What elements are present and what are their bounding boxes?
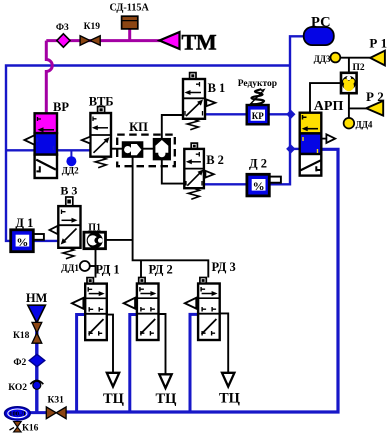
wire: ARP right output down right side and bottom bus [64, 149, 338, 412]
wire: RS reservoir drop vertical x=290 down to D2 link [269, 36, 303, 184]
svg-text:ДД1: ДД1 [61, 264, 79, 274]
wire: KP left element down + RD header [133, 157, 209, 277]
check valve KO2 [30, 380, 43, 389]
KR pressure regulator (Reduktor) [247, 89, 269, 125]
svg-text:КР: КР [252, 111, 265, 121]
filter F3 magenta diamond [57, 34, 70, 47]
svg-text:ВР: ВР [53, 100, 69, 114]
svg-text:ТЦ: ТЦ [103, 391, 125, 407]
KP right check element [154, 139, 171, 160]
wire: VR supply line from left border [6, 149, 90, 151]
P1 pressure switch [84, 232, 106, 249]
svg-text:%: % [253, 179, 265, 193]
wire: NM feed chain vertical [35, 318, 38, 412]
svg-text:П2: П2 [353, 63, 365, 73]
svg-text:РС: РС [311, 14, 331, 30]
wire: RD2 pilot drop [140, 260, 142, 277]
svg-text:НМ: НМ [26, 291, 48, 305]
svg-text:Редуктор: Редуктор [238, 79, 277, 89]
KP check valve unit dashed box [117, 135, 175, 167]
svg-text:ТЦ: ТЦ [219, 391, 241, 407]
wire: RD2 output to TC arrow [159, 314, 165, 374]
D2 pressure sensor percent box [247, 174, 281, 196]
wire: top blue bus + left border down to D1 [6, 66, 290, 241]
junction dot on vertical bus at KR line [286, 110, 295, 119]
svg-text:К31: К31 [48, 396, 65, 406]
wire: DD2 stub [70, 150, 72, 157]
RD1 pressure relay [72, 278, 107, 341]
svg-text:Ф3: Ф3 [56, 23, 69, 33]
R2 yellow triangle [366, 101, 383, 116]
svg-text:К19: К19 [84, 22, 101, 32]
air distributor VR valve block [25, 113, 58, 178]
svg-text:В 3: В 3 [60, 184, 77, 198]
reservoir 100L ellipse [5, 407, 31, 420]
svg-text:ТЦ: ТЦ [156, 391, 178, 407]
wire: magenta vertical with hop over blue bus [46, 41, 52, 114]
svg-text:ДД4: ДД4 [356, 120, 373, 130]
wire: KP right element up to V1 [162, 115, 183, 139]
wire: P1 output to vertical [106, 239, 133, 241]
svg-text:Ф2: Ф2 [13, 358, 26, 368]
svg-text:ДД2: ДД2 [62, 166, 79, 176]
ARP valve block [300, 113, 336, 176]
valve K19 brown bowtie [80, 36, 100, 46]
svg-text:Д 1: Д 1 [15, 216, 33, 230]
wire: P2 top to DD3/R1 line [348, 58, 350, 73]
sensor DD3 yellow circle [331, 53, 341, 63]
filter F2 blue diamond [29, 354, 45, 366]
RD2 pressure relay [124, 278, 159, 341]
wire: KP right element down to V2 [162, 160, 185, 184]
svg-text:СД-115А: СД-115А [110, 3, 150, 14]
VTB valve block [82, 107, 111, 168]
RD3 pressure relay [185, 278, 220, 341]
wire: ARP top to P2 [310, 83, 341, 113]
sensor DD2 blue circle [66, 156, 76, 166]
wire: VTB to KP shuttle [111, 148, 123, 150]
wire: DD3 to R1 horizontal [340, 57, 370, 59]
sensor DD4 yellow circle [344, 118, 355, 129]
svg-text:ВТБ: ВТБ [89, 95, 114, 109]
TM brake-main magenta triangle [159, 32, 179, 49]
wire: brake main magenta horizontal from TM [46, 39, 160, 42]
wire: V2 to D2 [204, 183, 247, 185]
V2 valve block [184, 143, 214, 199]
svg-text:Р 2: Р 2 [366, 89, 384, 104]
svg-text:ТМ: ТМ [182, 29, 217, 54]
svg-text:ДД3: ДД3 [314, 54, 331, 64]
P2 pressure switch [341, 73, 357, 93]
svg-text:КО2: КО2 [8, 383, 27, 393]
KP left shuttle element [123, 142, 143, 157]
valve K31 brown bowtie [46, 407, 66, 419]
wire: P1 bottom to RD1 pilot [95, 249, 97, 278]
sensor DD1 open circle [80, 261, 90, 271]
TC arrow 1 [107, 373, 119, 387]
wire: D1 to V3 [33, 240, 58, 242]
drain valve K16 [10, 420, 22, 432]
svg-text:РД 3: РД 3 [212, 260, 236, 274]
svg-text:КП: КП [129, 120, 148, 134]
svg-text:Д 2: Д 2 [249, 157, 267, 171]
NM funnel blue triangle [28, 305, 46, 323]
reservoir RS blue tank [304, 27, 334, 45]
sensor SD-115A brown box [122, 16, 138, 29]
wire: RD3 supply from bottom bus [190, 314, 198, 412]
junction dot on vertical bus at ARP link [286, 144, 295, 153]
wire: KP inner link [143, 148, 154, 150]
wire: RD1 supply from bottom bus [77, 315, 86, 413]
svg-text:100.Л: 100.Л [9, 411, 26, 418]
D1 pressure sensor percent box [11, 230, 44, 252]
svg-text:К18: К18 [13, 331, 30, 341]
svg-text:РД 1: РД 1 [95, 263, 119, 277]
svg-text:АРП: АРП [314, 99, 344, 114]
TC arrow 3 [222, 373, 234, 387]
svg-text:К16: К16 [22, 424, 39, 434]
svg-text:В 2: В 2 [206, 153, 224, 167]
wire: branch to R2 [349, 107, 367, 109]
wire: tank ellipse to K31 valve [29, 411, 48, 414]
TC arrow 2 [159, 374, 171, 388]
wire: DD1 link [90, 265, 96, 267]
wire: SD-115A sensor stub [128, 28, 131, 40]
wire: RD3 output to TC arrow [220, 313, 228, 372]
svg-text:В 1: В 1 [208, 81, 226, 95]
wire: P2 bottom to DD4 [348, 93, 350, 118]
V3 valve block [50, 197, 81, 259]
wire: RD1 output to TC arrow [107, 315, 113, 373]
svg-text:%: % [16, 235, 28, 249]
R1 yellow triangle [370, 51, 385, 66]
wire: RD2 supply from bottom bus [130, 315, 137, 413]
V1 valve block [183, 73, 215, 130]
wire: V1 to KR regulator to vertical bus [205, 113, 290, 115]
svg-text:Р 1: Р 1 [369, 36, 387, 51]
wire: ARP left link [290, 148, 300, 150]
svg-text:РД 2: РД 2 [149, 263, 173, 277]
svg-text:П1: П1 [88, 223, 101, 234]
valve K18 brown vertical bowtie [32, 322, 42, 343]
